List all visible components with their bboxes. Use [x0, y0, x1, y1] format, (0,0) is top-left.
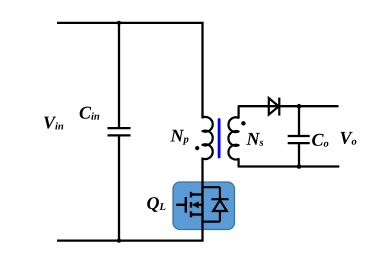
wire primary bottom through QL to bottom rail and back to Vin- — [57, 159, 203, 241]
junction bottom-left — [117, 239, 121, 243]
MOSFET QL channel segments — [190, 192, 192, 218]
label Co — [312, 134, 328, 147]
wire secondary top to output — [239, 105, 339, 107]
MOSFET QL drain branch to body diode — [203, 186, 220, 188]
capacitor Cin plates — [108, 128, 131, 135]
polarity dot secondary — [241, 121, 245, 125]
transformer core — [218, 120, 221, 158]
MOSFET QL drain stub — [191, 193, 203, 195]
MOSFET QL gate bar — [185, 197, 187, 213]
transformer secondary winding Ns — [228, 106, 238, 166]
MOSFET QL source branch from body diode — [203, 221, 220, 223]
body diode symbol — [211, 199, 228, 211]
capacitor Co plates — [288, 136, 310, 143]
label Vo — [341, 132, 357, 145]
label Cin — [80, 107, 100, 120]
transformer primary winding Np — [203, 117, 213, 159]
highlight box around QL — [173, 182, 235, 230]
body diode cathode lead — [219, 187, 221, 199]
MOSFET QL gate lead — [176, 204, 186, 206]
polarity dot primary — [195, 146, 199, 150]
label QL — [147, 197, 165, 212]
junction top-right — [297, 104, 302, 109]
wire top (Vin+ to primary top) — [57, 23, 203, 118]
capacitor Cin top lead wire — [118, 23, 120, 127]
diode D (output rectifier) — [269, 98, 280, 116]
label Vin — [44, 117, 63, 130]
capacitor Co top lead — [298, 106, 300, 135]
label Np — [170, 130, 188, 145]
wire secondary bottom rail — [239, 165, 340, 167]
capacitor Co bottom lead — [298, 144, 300, 166]
junction top-left — [117, 21, 121, 25]
body diode anode lead — [219, 211, 221, 222]
capacitor Cin bottom lead wire — [118, 136, 120, 240]
MOSFET QL source stub — [191, 213, 203, 215]
junction bottom-right — [297, 164, 302, 169]
MOSFET QL source arrow — [192, 201, 203, 208]
label Ns — [246, 133, 263, 146]
